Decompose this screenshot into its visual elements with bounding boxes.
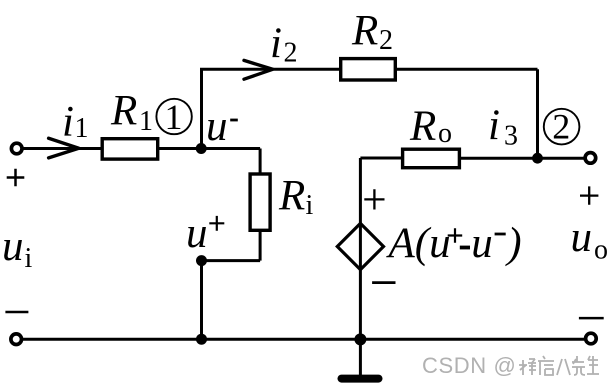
wire node u+ down to rail — [200, 261, 203, 340]
svg-text:R: R — [409, 103, 436, 150]
dependent source diamond A(u+-u-) — [337, 223, 383, 269]
svg-text:u: u — [2, 223, 24, 270]
svg-text:o: o — [594, 235, 608, 266]
svg-text:CSDN @: CSDN @ — [422, 353, 516, 378]
svg-text:u: u — [571, 214, 593, 261]
svg-text:2: 2 — [379, 25, 393, 56]
minus output — [579, 317, 604, 320]
watermark CSDN — [422, 353, 516, 378]
watermark chinese glyph dian — [538, 356, 554, 375]
node 2 circled — [544, 109, 580, 145]
svg-text:u: u — [206, 103, 228, 150]
minus source — [372, 281, 395, 284]
svg-text:i: i — [306, 190, 314, 221]
watermark chinese glyph xian — [572, 356, 585, 375]
svg-text:u: u — [471, 220, 493, 267]
node 1 circled — [156, 99, 191, 134]
resistor R2 — [341, 59, 396, 80]
resistor R1 — [102, 139, 158, 159]
svg-text:2: 2 — [284, 38, 298, 69]
svg-text:u: u — [186, 210, 208, 257]
svg-text:): ) — [504, 220, 521, 267]
node u+ junction dot — [196, 255, 207, 266]
svg-text:R: R — [351, 8, 378, 55]
wire node 1 to Ri corner — [202, 147, 261, 150]
terminal input top — [11, 143, 22, 154]
node 2 junction dot — [532, 153, 543, 164]
ground bar — [338, 375, 383, 383]
svg-text:i: i — [270, 20, 282, 67]
wire bottom rail — [23, 338, 584, 341]
wire node 1 up — [200, 69, 203, 148]
wire Ro to node 2 — [459, 157, 537, 160]
svg-text:i: i — [25, 243, 33, 274]
svg-text:1: 1 — [165, 97, 183, 137]
plus output — [580, 186, 598, 204]
wire dependent source vertical — [359, 158, 362, 339]
svg-text:2: 2 — [552, 107, 570, 147]
terminal input bottom — [11, 334, 22, 345]
wire corner down to Ri — [259, 149, 262, 175]
resistor Ri — [250, 174, 270, 230]
svg-text:1: 1 — [139, 106, 153, 137]
svg-text:R: R — [110, 87, 137, 134]
node u- junction dot — [196, 143, 207, 154]
wire top to R2 — [200, 68, 340, 71]
svg-text:1: 1 — [75, 113, 89, 144]
wire ground stem — [359, 339, 362, 375]
junction dot u+ rail — [196, 334, 207, 345]
plus input — [7, 169, 25, 187]
arrow i1 — [49, 138, 79, 158]
svg-text:A(u: A(u — [386, 220, 451, 267]
terminal output top — [585, 153, 596, 164]
resistor Ro — [403, 149, 460, 168]
wire node 2 to output terminal — [538, 157, 585, 160]
terminal output bottom — [586, 333, 597, 344]
wire R1 to node 1 — [159, 147, 202, 150]
wire source top to Ro — [360, 157, 402, 160]
svg-text:i: i — [488, 102, 500, 149]
svg-text:o: o — [438, 118, 452, 149]
wire corner down to node 2 — [536, 69, 539, 158]
minus input — [5, 311, 28, 314]
wire Ri bottom down — [259, 230, 262, 260]
wire input to R1 — [24, 147, 103, 150]
wire R2 to corner — [396, 68, 538, 71]
watermark chinese glyph lou — [519, 356, 599, 375]
wire to node u+ — [202, 259, 261, 262]
arrow i2 — [244, 60, 273, 79]
watermark chinese glyph sheng — [587, 356, 599, 374]
svg-text:3: 3 — [504, 121, 518, 152]
svg-text:i: i — [62, 99, 74, 146]
svg-text:R: R — [278, 173, 305, 220]
plus source — [364, 189, 384, 209]
junction dot source rail — [354, 333, 366, 345]
watermark chinese glyph ba — [557, 359, 570, 375]
